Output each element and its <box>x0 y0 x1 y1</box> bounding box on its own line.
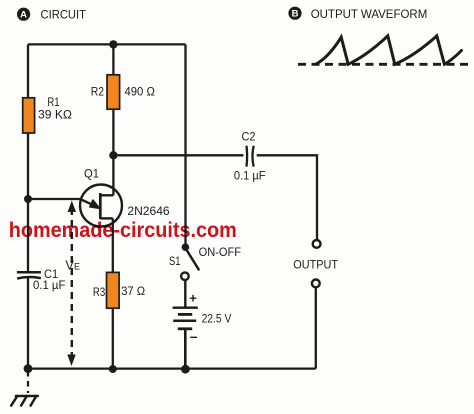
wire R2 branch upper <box>112 44 114 75</box>
terminal output bottom <box>312 280 320 288</box>
svg-text:OUTPUT: OUTPUT <box>293 257 338 271</box>
node bottom left <box>24 364 33 373</box>
wire top rail <box>28 43 186 45</box>
capacitor C1 <box>17 272 41 278</box>
wire emitter <box>28 198 81 200</box>
svg-text:OUTPUT WAVEFORM: OUTPUT WAVEFORM <box>311 7 428 21</box>
svg-text:Q1: Q1 <box>84 167 99 181</box>
svg-text:37 Ω: 37 Ω <box>121 284 145 298</box>
svg-text:A: A <box>20 10 27 21</box>
wire R3 to ground rail <box>112 308 114 369</box>
transistor Q1 <box>80 185 122 227</box>
svg-text:R2: R2 <box>91 85 104 99</box>
wire battery to ground rail <box>184 329 187 369</box>
ground <box>11 396 38 406</box>
svg-text:490 Ω: 490 Ω <box>125 85 155 99</box>
wire left rail upper <box>27 44 29 272</box>
wire left rail lower <box>27 278 29 369</box>
wire right rail <box>184 44 186 245</box>
battery B1 <box>173 308 198 329</box>
svg-text:22.5 V: 22.5 V <box>202 312 232 326</box>
resistor R3 <box>107 272 120 308</box>
resistor R2 <box>107 75 120 109</box>
resistor R1 <box>23 98 35 133</box>
svg-text:C2: C2 <box>242 130 256 144</box>
wire base1 to R3 <box>112 218 114 272</box>
svg-text:0.1 µF: 0.1 µF <box>234 168 266 182</box>
waveform sawtooth <box>316 36 462 64</box>
svg-text:R3: R3 <box>93 285 105 299</box>
svg-text:ON-OFF: ON-OFF <box>199 245 241 259</box>
svg-text:homemade-circuits.com: homemade-circuits.com <box>9 219 237 242</box>
wire C2 branch left <box>113 154 243 156</box>
terminal output top <box>313 240 321 248</box>
wire switch to battery <box>184 280 186 307</box>
node junction C2 branch <box>109 151 117 159</box>
VE arrow dashed <box>67 201 76 367</box>
svg-text:B: B <box>292 9 299 20</box>
badge B <box>288 7 301 20</box>
svg-text:CIRCUIT: CIRCUIT <box>41 8 87 22</box>
waveform baseline <box>298 63 470 66</box>
node emitter junction <box>24 195 32 203</box>
svg-text:39 KΩ: 39 KΩ <box>38 108 72 122</box>
svg-text:0.1 µF: 0.1 µF <box>33 278 66 292</box>
node bottom R3 <box>109 365 117 373</box>
svg-text:2N2646: 2N2646 <box>127 204 169 218</box>
wire C2 right to output corner <box>257 155 317 240</box>
svg-text:+: + <box>189 291 197 306</box>
svg-text:S1: S1 <box>169 254 181 268</box>
svg-text:–: – <box>190 328 198 344</box>
node junction top rail <box>109 40 117 48</box>
wire output bottom to ground rail <box>315 287 317 368</box>
badge A <box>17 8 30 21</box>
capacitor C2 <box>247 146 254 167</box>
wire bottom rail <box>28 367 316 369</box>
switch S1 <box>181 243 199 280</box>
wire ground stub dashed <box>27 371 29 393</box>
wire R2 to transistor base2 <box>112 109 114 195</box>
node bottom battery <box>181 365 190 374</box>
